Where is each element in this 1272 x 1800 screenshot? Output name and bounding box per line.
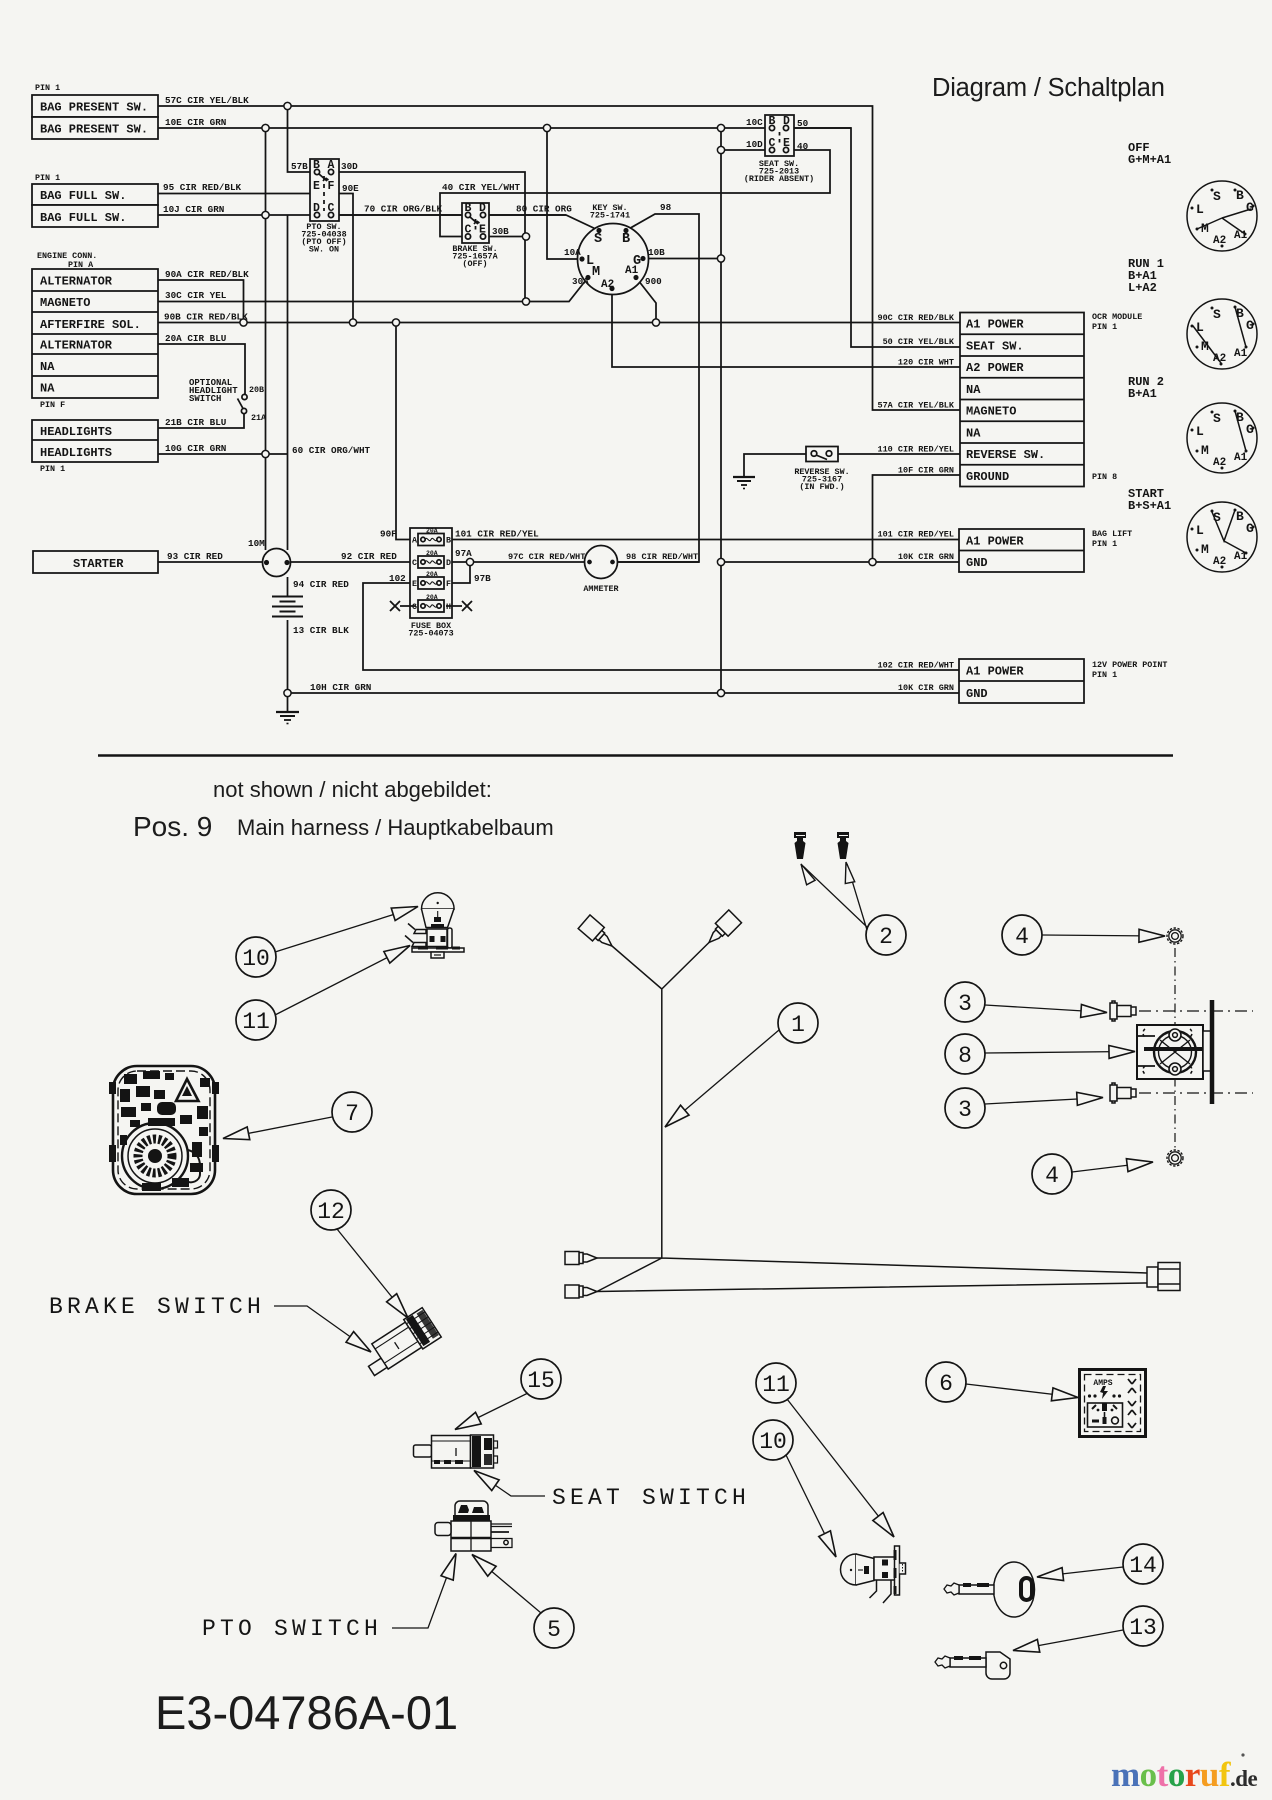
leader 4 top	[1042, 929, 1165, 942]
connector block: starter	[33, 551, 158, 573]
svg-text:BRAKE SWITCH: BRAKE SWITCH	[49, 1294, 265, 1320]
junction dots (open circles)	[240, 102, 876, 696]
svg-text:S: S	[1213, 307, 1221, 322]
svg-text:30A: 30A	[572, 276, 589, 287]
svg-text:20A: 20A	[426, 528, 438, 535]
svg-text:L+A2: L+A2	[1128, 281, 1157, 295]
key position diagrams	[1128, 141, 1171, 513]
svg-text:(OFF): (OFF)	[462, 259, 487, 269]
svg-text:HEADLIGHTS: HEADLIGHTS	[40, 425, 112, 439]
svg-text:D: D	[446, 558, 451, 568]
svg-text:(IN FWD.): (IN FWD.)	[799, 482, 844, 492]
svg-text:M: M	[1201, 443, 1209, 458]
key position terminal dots and letters	[1191, 189, 1255, 569]
svg-text:D: D	[479, 202, 486, 215]
svg-text:MAGNETO: MAGNETO	[40, 296, 90, 310]
brake switch label leader	[274, 1306, 375, 1357]
leader 15	[452, 1393, 528, 1435]
svg-text:B: B	[1236, 188, 1244, 203]
svg-text:20A: 20A	[426, 550, 438, 557]
reverse switch 725-3167	[806, 447, 838, 462]
svg-text:PIN 1: PIN 1	[1092, 322, 1117, 332]
ground symbol near reverse switch	[733, 477, 755, 489]
part 4 top nut	[1167, 928, 1183, 944]
svg-text:30C CIR YEL: 30C CIR YEL	[165, 290, 227, 301]
wire key L 10A	[547, 128, 582, 259]
brake switch 725-1657A	[462, 203, 489, 243]
fuse box 725-04073	[390, 528, 472, 618]
svg-text:13: 13	[1129, 1615, 1157, 1641]
svg-text:A1: A1	[1234, 551, 1248, 563]
svg-text:80 CIR ORG: 80 CIR ORG	[516, 204, 572, 215]
svg-text:12: 12	[317, 1199, 345, 1225]
svg-text:PIN 1: PIN 1	[35, 83, 60, 93]
leader 3 lower	[985, 1091, 1103, 1105]
part 3 lower bolt	[1110, 1083, 1136, 1103]
part 1 main harness branch wires	[597, 943, 1147, 1292]
svg-text:4: 4	[1045, 1163, 1059, 1189]
wire 94 CIR RED battery positive	[287, 577, 289, 596]
leader 1	[661, 1030, 779, 1132]
svg-text:M: M	[1201, 542, 1209, 557]
svg-text:Pos. 9: Pos. 9	[133, 811, 212, 842]
svg-text:G: G	[1246, 521, 1254, 536]
svg-text:C: C	[769, 137, 776, 150]
svg-text:HEADLIGHTS: HEADLIGHTS	[40, 446, 112, 460]
svg-text:L: L	[1196, 320, 1204, 335]
svg-text:90A CIR RED/BLK: 90A CIR RED/BLK	[165, 269, 249, 280]
svg-text:10E CIR GRN: 10E CIR GRN	[165, 117, 226, 128]
svg-text:AMPS: AMPS	[1093, 1379, 1112, 1388]
svg-text:C: C	[465, 224, 472, 237]
svg-text:not shown / nicht abgebildet:: not shown / nicht abgebildet:	[213, 777, 492, 802]
svg-text:SWITCH: SWITCH	[189, 394, 221, 404]
wire 10G CIR GRN	[158, 453, 288, 455]
part 6 ammeter gauge	[1080, 1370, 1146, 1437]
svg-text:10D: 10D	[746, 139, 763, 150]
svg-text:57B: 57B	[291, 161, 308, 172]
svg-text:D: D	[313, 202, 320, 215]
wire 10D seat C	[721, 149, 786, 151]
seat switch label leader	[470, 1465, 545, 1496]
OCR module connector block	[960, 313, 1084, 487]
svg-text:A2: A2	[1213, 556, 1226, 568]
svg-text:SEAT SW.: SEAT SW.	[966, 340, 1024, 354]
harness flag terminal lower-left 1	[565, 1252, 597, 1265]
svg-text:motoruf.de: motoruf.de	[1111, 1755, 1258, 1794]
svg-text:B: B	[465, 202, 472, 215]
svg-text:10H CIR GRN: 10H CIR GRN	[310, 682, 371, 693]
svg-text:SW. ON: SW. ON	[309, 245, 339, 255]
wire key B 98	[617, 214, 699, 562]
svg-text:B: B	[1236, 306, 1244, 321]
svg-text:L: L	[1196, 424, 1204, 439]
wire 21B CIR BLU	[158, 414, 244, 428]
leader 11 right	[787, 1399, 899, 1541]
svg-text:B: B	[1236, 410, 1244, 425]
svg-text:B: B	[446, 536, 451, 546]
key position circle START	[1187, 502, 1257, 572]
leader 11 left	[275, 940, 413, 1015]
center line dash-dot lower bolt axis	[1139, 1092, 1253, 1094]
wire 70 CIR ORG/BLK PTO C to key S	[331, 215, 599, 231]
Diagram / Schaltplan title	[932, 74, 1165, 102]
svg-text:40: 40	[797, 141, 809, 152]
svg-text:REVERSE SW.: REVERSE SW.	[966, 448, 1045, 462]
svg-text:G+M+A1: G+M+A1	[1128, 153, 1171, 167]
leader 6	[966, 1384, 1079, 1404]
svg-text:G: G	[1246, 200, 1254, 215]
svg-text:21A: 21A	[251, 413, 267, 423]
svg-text:SEAT SWITCH: SEAT SWITCH	[552, 1485, 750, 1511]
svg-text:11: 11	[242, 1009, 270, 1035]
wire 97B fuse F	[446, 562, 470, 583]
svg-text:10C: 10C	[746, 117, 763, 128]
pto switch label leader	[392, 1551, 462, 1628]
svg-text:5: 5	[547, 1617, 561, 1643]
svg-text:Diagram / Schaltplan: Diagram / Schaltplan	[932, 74, 1165, 102]
svg-text:G: G	[412, 602, 417, 612]
key position circle RUN 1	[1187, 299, 1257, 369]
key switch 725-1741	[578, 224, 649, 295]
leader 2 to screws	[797, 861, 867, 930]
svg-text:BAG LIFT: BAG LIFT	[1092, 529, 1132, 539]
harness connector top-right	[703, 910, 742, 949]
svg-text:B: B	[769, 115, 776, 128]
svg-text:ALTERNATOR: ALTERNATOR	[40, 339, 113, 353]
wire 57C CIR YEL/BLK	[158, 106, 960, 410]
drawing number	[155, 1686, 458, 1739]
svg-text:PIN 1: PIN 1	[1092, 670, 1117, 680]
svg-text:A2: A2	[1213, 457, 1226, 469]
svg-text:A2: A2	[601, 279, 614, 291]
svg-text:10: 10	[242, 946, 270, 972]
part 7 OCR module	[109, 1066, 219, 1194]
svg-text:PIN 1: PIN 1	[1092, 539, 1117, 549]
svg-text:10G CIR GRN: 10G CIR GRN	[165, 443, 226, 454]
svg-text:20A CIR BLU: 20A CIR BLU	[165, 333, 226, 344]
wire 90A CIR RED/BLK	[158, 280, 244, 323]
wire 50 CIR YEL/BLK seat D to OCR	[786, 128, 960, 347]
svg-text:20A: 20A	[426, 571, 438, 578]
svg-text:50: 50	[797, 118, 809, 129]
svg-text:57A CIR YEL/BLK: 57A CIR YEL/BLK	[877, 401, 954, 411]
svg-text:900: 900	[645, 276, 662, 287]
key position circle RUN 2	[1187, 403, 1257, 473]
svg-text:95 CIR RED/BLK: 95 CIR RED/BLK	[163, 182, 242, 193]
svg-text:90E: 90E	[342, 183, 359, 194]
ammeter	[585, 546, 618, 579]
svg-text:PIN 1: PIN 1	[40, 464, 65, 474]
motoruf logo	[1111, 1753, 1258, 1794]
svg-text:A1: A1	[1234, 452, 1248, 464]
wire 10E CIR GRN	[158, 127, 851, 129]
leader 13	[1012, 1630, 1123, 1657]
svg-text:10M: 10M	[248, 538, 265, 549]
svg-text:4: 4	[1015, 924, 1029, 950]
svg-text:BAG PRESENT SW.: BAG PRESENT SW.	[40, 101, 148, 115]
leader 14	[1036, 1567, 1123, 1583]
svg-text:30D: 30D	[341, 161, 358, 172]
svg-text:21B CIR BLU: 21B CIR BLU	[165, 417, 226, 428]
bag lift connector block	[959, 529, 1084, 572]
svg-text:S: S	[1213, 189, 1221, 204]
svg-text:E: E	[412, 579, 417, 589]
svg-text:G: G	[1246, 318, 1254, 333]
svg-text:B: B	[1236, 509, 1244, 524]
svg-text:7: 7	[345, 1101, 359, 1127]
svg-text:GROUND: GROUND	[966, 470, 1009, 484]
svg-text:90B CIR RED/BLK: 90B CIR RED/BLK	[164, 312, 248, 323]
svg-text:E: E	[479, 224, 486, 237]
svg-text:BAG FULL SW.: BAG FULL SW.	[40, 211, 126, 225]
wire 102 fuse E to 12V power point	[363, 583, 959, 670]
svg-text:98: 98	[660, 202, 672, 213]
wire key A2 120 CIR WHT	[612, 289, 960, 368]
part 4 bottom nut	[1167, 1150, 1183, 1166]
svg-text:97C CIR RED/WHT: 97C CIR RED/WHT	[508, 552, 585, 562]
12V power point connector block	[959, 659, 1084, 703]
svg-text:2: 2	[879, 924, 893, 950]
svg-text:NA: NA	[966, 383, 981, 397]
big part labels	[49, 1294, 750, 1642]
svg-text:A1: A1	[1234, 230, 1248, 242]
svg-text:10F CIR GRN: 10F CIR GRN	[898, 466, 954, 476]
svg-text:L: L	[1196, 523, 1204, 538]
svg-text:97B: 97B	[474, 573, 491, 584]
harness connector right plug	[1147, 1263, 1180, 1291]
seat switch connector 725-2013 rider absent	[765, 115, 794, 156]
svg-text:GND: GND	[966, 687, 988, 701]
svg-text:E3-04786A-01: E3-04786A-01	[155, 1686, 458, 1739]
svg-text:PIN 1: PIN 1	[35, 173, 60, 183]
svg-text:STARTER: STARTER	[73, 557, 124, 571]
svg-text:101 CIR RED/YEL: 101 CIR RED/YEL	[877, 530, 954, 540]
starter solenoid circle 10M	[263, 549, 291, 577]
svg-text:10K CIR GRN: 10K CIR GRN	[898, 552, 954, 562]
svg-text:GND: GND	[966, 556, 988, 570]
svg-text:PIN 8: PIN 8	[1092, 472, 1117, 482]
wire PTO A 30D drop	[331, 172, 525, 302]
svg-text:F: F	[446, 579, 451, 589]
wire key G 10B	[643, 258, 721, 260]
svg-text:70 CIR ORG/BLK: 70 CIR ORG/BLK	[364, 204, 443, 215]
svg-text:57C CIR YEL/BLK: 57C CIR YEL/BLK	[165, 95, 249, 106]
svg-text:Main harness / Hauptkabelbaum: Main harness / Hauptkabelbaum	[237, 815, 554, 840]
part 12 brake switch body	[358, 1308, 442, 1379]
leader 3 upper	[985, 1004, 1107, 1019]
svg-text:D: D	[783, 115, 790, 128]
svg-text:110 CIR RED/YEL: 110 CIR RED/YEL	[877, 445, 954, 455]
svg-text:PIN F: PIN F	[40, 400, 65, 410]
svg-text:E: E	[783, 137, 790, 150]
svg-text:NA: NA	[966, 427, 981, 441]
svg-text:A1 POWER: A1 POWER	[966, 535, 1024, 549]
svg-text:10B: 10B	[648, 247, 665, 258]
svg-text:A2: A2	[1213, 353, 1226, 365]
battery symbol	[272, 597, 303, 617]
svg-text:3: 3	[958, 1097, 972, 1123]
wire 90B / 90C CIR RED/BLK	[158, 322, 960, 324]
leader 4 bottom	[1072, 1156, 1154, 1172]
svg-text:AFTERFIRE SOL.: AFTERFIRE SOL.	[40, 318, 141, 332]
svg-text:10J CIR GRN: 10J CIR GRN	[163, 204, 224, 215]
wire ocr vertical 10 chain	[720, 128, 722, 693]
PTO switch 725-04038	[310, 159, 339, 221]
svg-text:S: S	[594, 232, 602, 247]
wire 57C drop to PTO B	[288, 106, 315, 172]
wire 10J CIR GRN to PTO D	[158, 214, 566, 216]
part 13 key	[935, 1652, 1010, 1679]
svg-text:A1 POWER: A1 POWER	[966, 318, 1024, 332]
svg-text:102: 102	[389, 573, 406, 584]
center line dash-dot vertical	[1174, 948, 1176, 1148]
wire 93 CIR RED starter cable	[158, 561, 263, 563]
svg-text:120 CIR WHT: 120 CIR WHT	[898, 358, 954, 368]
part 3 upper bolt	[1110, 1001, 1136, 1021]
wire 97C ammeter to bag lift gnd	[617, 561, 959, 563]
svg-text:15: 15	[527, 1368, 555, 1394]
svg-text:98 CIR RED/WHT: 98 CIR RED/WHT	[626, 552, 698, 562]
connector block: headlights	[32, 420, 158, 462]
center line dash-dot upper bolt axis	[1139, 1010, 1253, 1012]
optional headlight switch	[238, 394, 248, 413]
leader 7	[222, 1117, 332, 1145]
svg-text:10A: 10A	[564, 247, 581, 258]
svg-text:PIN A: PIN A	[68, 260, 94, 270]
svg-text:6: 6	[939, 1371, 953, 1397]
part 15 seat switch body	[414, 1435, 498, 1468]
svg-text:S: S	[1213, 411, 1221, 426]
connector block: bag present switch	[32, 95, 158, 139]
svg-text:90F: 90F	[380, 529, 397, 540]
svg-text:E: E	[313, 180, 320, 193]
svg-text:NA: NA	[40, 382, 55, 396]
schematic text labels	[40, 101, 1045, 702]
wire 101 CIR RED/YEL fuse B to bag lift	[446, 539, 959, 541]
wire reverse switch to ground	[744, 454, 806, 477]
svg-text:725-04073: 725-04073	[408, 629, 453, 639]
svg-text:L: L	[1196, 202, 1204, 217]
svg-text:BAG PRESENT SW.: BAG PRESENT SW.	[40, 123, 148, 137]
svg-text:60 CIR ORG/WHT: 60 CIR ORG/WHT	[292, 445, 371, 456]
wire brake E 30B	[485, 236, 526, 238]
svg-text:A1: A1	[1234, 348, 1248, 360]
svg-text:1: 1	[791, 1012, 805, 1038]
wire 95 CIR RED/BLK to PTO E	[158, 193, 314, 195]
svg-text:C: C	[412, 558, 417, 568]
svg-text:94 CIR RED: 94 CIR RED	[293, 579, 349, 590]
wire 10H CIR GRN	[288, 692, 960, 694]
harness connector top-left	[578, 915, 618, 953]
svg-text:M: M	[1201, 339, 1209, 354]
part 8 starter solenoid	[1137, 1000, 1212, 1104]
part 14 key with oval head	[944, 1562, 1035, 1617]
wire 30C CIR YEL to key M	[158, 278, 588, 302]
part 10/11 headlight bulb and socket	[405, 893, 464, 958]
svg-text:B: B	[313, 159, 320, 172]
svg-text:20B: 20B	[249, 385, 264, 395]
svg-text:MAGNETO: MAGNETO	[966, 405, 1016, 419]
leader 5	[468, 1550, 541, 1613]
horizontal divider line	[98, 754, 1173, 757]
leader 10 right	[786, 1455, 842, 1560]
svg-text:S: S	[1213, 510, 1221, 525]
svg-text:11: 11	[762, 1372, 790, 1398]
svg-text:102 CIR RED/WHT: 102 CIR RED/WHT	[877, 661, 954, 671]
svg-text:NA: NA	[40, 360, 55, 374]
wire 20A CIR BLU	[158, 344, 245, 394]
wire 60 CIR ORG/WHT vertical to solenoid	[287, 215, 289, 550]
wire 110 CIR RED/YEL reverse to OCR	[838, 453, 960, 455]
svg-text:(RIDER ABSENT): (RIDER ABSENT)	[744, 174, 814, 184]
svg-text:3: 3	[958, 991, 972, 1017]
wire PTO F 90E drop	[331, 194, 353, 323]
svg-text:M: M	[592, 265, 600, 280]
wire 13 CIR BLK battery negative	[287, 620, 289, 712]
svg-text:H: H	[446, 602, 451, 612]
leader 8	[985, 1045, 1135, 1058]
wire 40 CIR YEL/WHT loop seat E to brake C	[440, 150, 830, 237]
svg-text:50 CIR YEL/BLK: 50 CIR YEL/BLK	[883, 337, 955, 347]
svg-text:8: 8	[958, 1043, 972, 1069]
svg-text:12V POWER POINT: 12V POWER POINT	[1092, 660, 1167, 670]
svg-text:B+S+A1: B+S+A1	[1128, 499, 1171, 513]
wire 97A fuse D	[446, 561, 585, 563]
svg-text:20A: 20A	[426, 594, 438, 601]
svg-text:93 CIR RED: 93 CIR RED	[167, 551, 223, 562]
svg-text:A1 POWER: A1 POWER	[966, 665, 1024, 679]
leader lines with arrows	[222, 861, 1165, 1657]
svg-text:14: 14	[1129, 1553, 1157, 1579]
part 7 housing texture	[120, 1071, 210, 1191]
svg-text:OCR MODULE: OCR MODULE	[1092, 312, 1142, 322]
svg-text:PTO SWITCH: PTO SWITCH	[202, 1616, 382, 1642]
svg-text:40 CIR YEL/WHT: 40 CIR YEL/WHT	[442, 182, 521, 193]
svg-text:A2: A2	[1213, 235, 1226, 247]
svg-text:10K CIR GRN: 10K CIR GRN	[898, 683, 954, 693]
svg-text:92 CIR RED: 92 CIR RED	[341, 551, 397, 562]
leader 12	[337, 1229, 413, 1322]
key switch terminal letters	[586, 232, 641, 291]
svg-text:A: A	[328, 159, 335, 172]
svg-text:ALTERNATOR: ALTERNATOR	[40, 275, 113, 289]
svg-text:A2 POWER: A2 POWER	[966, 361, 1024, 375]
svg-text:BAG FULL SW.: BAG FULL SW.	[40, 189, 126, 203]
svg-text:B+A1: B+A1	[1128, 387, 1157, 401]
callout circles	[236, 915, 1163, 1648]
part 10/11 ignition switch with bulb	[840, 1546, 905, 1603]
wire ground chain vertical 10E/10J/10G	[265, 128, 267, 550]
wire 10F CIR GRN ground to OCR	[873, 475, 961, 562]
svg-text:AMMETER: AMMETER	[583, 584, 619, 594]
svg-text:90C CIR RED/BLK: 90C CIR RED/BLK	[877, 313, 954, 323]
svg-text:13 CIR BLK: 13 CIR BLK	[293, 625, 349, 636]
harness flag terminal lower-left 2	[565, 1285, 597, 1298]
part 5 PTO switch body	[435, 1501, 512, 1551]
svg-text:C: C	[328, 202, 335, 215]
leader 10 left	[275, 900, 420, 952]
svg-text:F: F	[328, 180, 335, 193]
svg-text:A1: A1	[625, 265, 639, 277]
connector block: engine connector	[32, 269, 158, 398]
wire 90F fuse A feed	[396, 323, 416, 540]
key position circle OFF	[1187, 181, 1257, 251]
wire key A1 900	[636, 278, 656, 323]
svg-text:M: M	[1201, 221, 1209, 236]
svg-text:30B: 30B	[492, 226, 509, 237]
not shown note	[133, 777, 554, 842]
